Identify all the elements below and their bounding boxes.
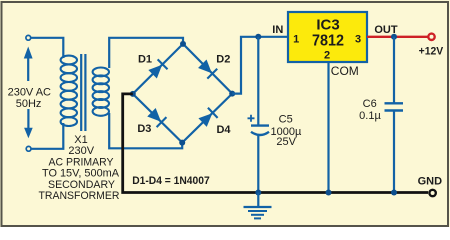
svg-text:GND: GND xyxy=(418,176,443,188)
junction dot: bridge right vertex xyxy=(229,91,235,97)
svg-text:D1-D4 = 1N4007: D1-D4 = 1N4007 xyxy=(132,175,210,187)
svg-text:IC3: IC3 xyxy=(316,17,339,34)
terminal: AC input top xyxy=(26,35,31,40)
svg-text:230V: 230V xyxy=(68,145,94,157)
diode D1 xyxy=(148,59,168,79)
junction dot: bridge top vertex xyxy=(180,41,186,47)
transformer X1 core xyxy=(81,54,85,131)
arrow down (230V AC source) xyxy=(24,109,33,138)
svg-text:C5: C5 xyxy=(279,114,293,126)
junction dot: C6 at ground bus xyxy=(391,190,397,196)
svg-text:3: 3 xyxy=(355,33,361,45)
svg-text:IN: IN xyxy=(272,24,283,36)
svg-text:1: 1 xyxy=(293,33,299,45)
svg-text:D4: D4 xyxy=(216,124,231,136)
wire: IC3 pin2 to ground bus xyxy=(327,62,329,193)
junction dot: COM at ground bus xyxy=(326,190,332,196)
svg-text:COM: COM xyxy=(331,64,359,78)
terminal: AC input bottom xyxy=(26,146,31,151)
svg-text:+12V: +12V xyxy=(419,45,444,57)
junction dot: C6 branch on output xyxy=(391,34,397,40)
svg-text:TO 15V, 500mA: TO 15V, 500mA xyxy=(42,168,120,180)
svg-text:D2: D2 xyxy=(216,54,230,66)
IC3 7812 regulator body xyxy=(288,12,367,62)
junction dot: bridge left vertex xyxy=(130,91,136,97)
svg-text:7812: 7812 xyxy=(312,32,344,49)
svg-text:D1: D1 xyxy=(138,54,152,66)
junction dot: C5 at ground bus xyxy=(255,190,261,196)
wire: secondary top to bridge top vertex xyxy=(109,38,183,68)
wire: secondary bottom to bridge bottom vertex xyxy=(109,113,182,148)
svg-text:X1: X1 xyxy=(74,134,87,146)
svg-text:TRANSFORMER: TRANSFORMER xyxy=(39,190,120,202)
wire: C6 to ground bus xyxy=(393,111,395,193)
wire: C5 branch down xyxy=(257,37,259,125)
wire: primary top from terminal to coil xyxy=(31,38,64,58)
svg-text:25V: 25V xyxy=(276,136,296,148)
svg-text:D3: D3 xyxy=(137,123,151,135)
terminal: +12V output xyxy=(428,34,434,40)
svg-text:SECONDARY: SECONDARY xyxy=(48,179,116,191)
wire: +12V output (red) xyxy=(367,36,428,38)
capacitor C6 xyxy=(385,103,404,110)
svg-text:0.1µ: 0.1µ xyxy=(359,110,381,122)
wire: C6 branch down xyxy=(393,37,395,103)
capacitor C5 (electrolytic) xyxy=(248,115,270,135)
junction dot: bridge bottom vertex xyxy=(179,140,185,146)
wire: primary bottom from coil to terminal xyxy=(31,123,63,149)
arrow up (230V AC source) xyxy=(24,47,33,82)
bridge rectifier diamond wires xyxy=(133,44,232,143)
svg-text:2: 2 xyxy=(324,50,330,62)
wire: bridge + output up to IC3 input xyxy=(232,37,287,94)
diode D3 xyxy=(147,107,167,127)
wire: ground (black) from bridge left vertex down and along bottom bus to GND xyxy=(123,94,428,193)
ground symbol xyxy=(244,193,272,219)
junction dot: node at C5 branch xyxy=(255,34,261,40)
transformer X1 secondary coil xyxy=(93,68,109,116)
svg-text:C6: C6 xyxy=(363,98,377,110)
diode D4 xyxy=(198,108,218,128)
svg-text:230V AC: 230V AC xyxy=(8,87,51,99)
terminal: GND xyxy=(429,190,435,196)
wire: C5 to ground bus xyxy=(257,136,259,193)
svg-text:AC PRIMARY: AC PRIMARY xyxy=(49,156,115,168)
diode D2 xyxy=(197,59,217,79)
svg-text:50Hz: 50Hz xyxy=(16,98,42,110)
transformer X1 primary coil xyxy=(61,56,77,126)
